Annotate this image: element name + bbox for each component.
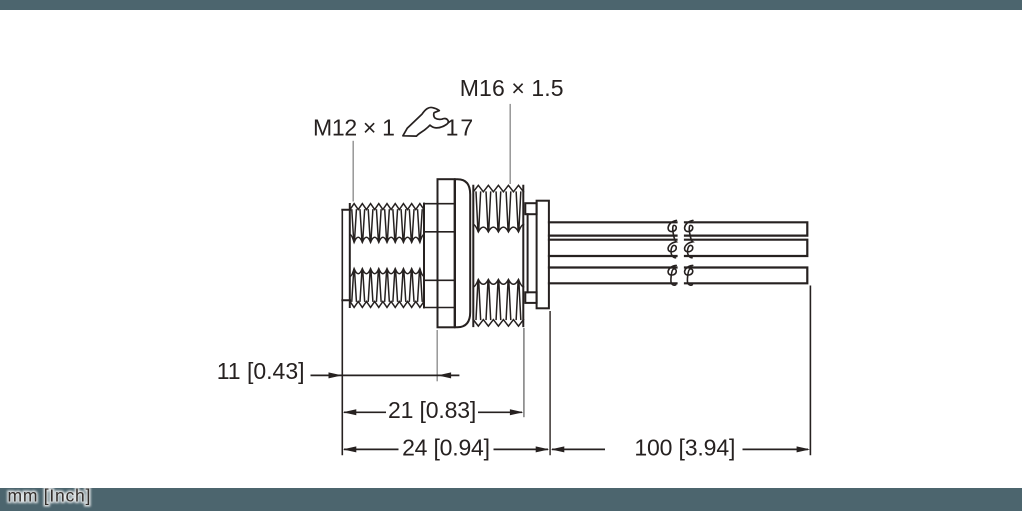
M12 thread lower band	[350, 269, 424, 308]
M12 thread end vertical	[423, 204, 425, 308]
svg-text:17: 17	[446, 114, 476, 140]
ext line M16 right (dim 21)	[523, 328, 525, 417]
M12 connector left end cap	[342, 204, 350, 307]
M12 label leader line	[352, 141, 354, 202]
top notch	[525, 203, 536, 214]
svg-text:M16 × 1.5: M16 × 1.5	[460, 75, 564, 101]
bottom slate band	[0, 488, 1022, 511]
wire band 3	[549, 268, 807, 284]
M12 thread upper band	[350, 204, 424, 243]
svg-text:mm [Inch]: mm [Inch]	[8, 486, 92, 506]
ext line flange left (dim 11)	[436, 330, 438, 381]
flange rect	[438, 179, 455, 327]
M16 thread edge verticals	[473, 186, 523, 326]
ext line left end (dims 11/21/24)	[341, 210, 343, 455]
cable break marks	[668, 220, 693, 285]
svg-text:21 [0.83]: 21 [0.83]	[388, 397, 476, 423]
back plate	[537, 201, 549, 309]
svg-text:M12 × 1: M12 × 1	[313, 114, 395, 140]
M16 label leader line	[509, 104, 511, 184]
dim 100 line	[552, 448, 808, 450]
dim 21 line	[344, 411, 522, 413]
wire band 1	[549, 222, 807, 235]
ext line wire end (dim 100)	[809, 286, 811, 456]
top slate band	[0, 0, 1022, 10]
dim 11 line	[311, 374, 460, 376]
M16 thread upper band	[473, 185, 523, 232]
svg-text:100 [3.94]: 100 [3.94]	[634, 434, 735, 460]
notch connector vertical	[527, 214, 529, 292]
wire band 2	[549, 240, 807, 256]
ext line plate right (dims 24/100)	[549, 311, 551, 455]
dim 24 line	[344, 448, 548, 450]
svg-text:24 [0.94]: 24 [0.94]	[402, 434, 490, 460]
wrench icon	[403, 107, 448, 136]
rounded body	[455, 179, 470, 327]
M16 thread lower band	[473, 280, 523, 327]
bottom notch	[525, 292, 536, 303]
collar lines	[424, 204, 455, 308]
svg-text:11 [0.43]: 11 [0.43]	[217, 358, 305, 384]
